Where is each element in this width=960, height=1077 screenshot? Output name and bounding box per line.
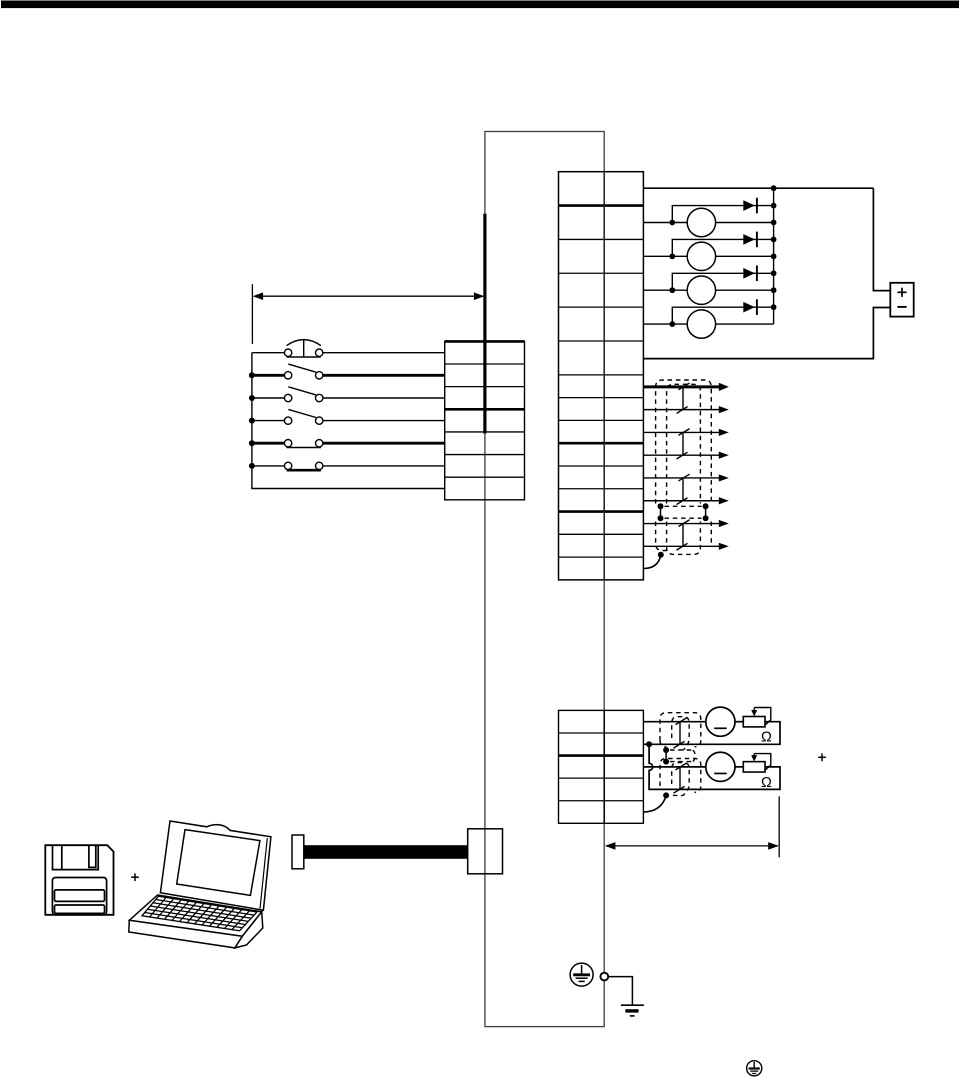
wire ground terminal to earth (608, 977, 632, 1005)
ohm label RP2 (761, 775, 772, 791)
communication connector CN4 on unit (468, 829, 503, 874)
encoder output signal wire 3 with arrow (643, 429, 728, 436)
junction node on relay RA4 wire (669, 321, 675, 327)
flywheel diode D2 (672, 232, 773, 257)
wire VDD to external supply (top) (643, 187, 873, 189)
relay coil RA4 (643, 310, 773, 338)
input switch SW5 (closed contact) (252, 440, 445, 448)
wire to supply positive (873, 188, 890, 290)
output common bus wire (773, 188, 775, 324)
junction node on relay RA1 wire (669, 220, 675, 226)
dimension arrow (analog cable length) (605, 842, 779, 850)
node on output bus at relay row 2 (771, 253, 777, 259)
twisted pair symbol 1 (677, 383, 690, 413)
flywheel diode D1 (672, 198, 773, 223)
meter M1 (ammeter) (706, 707, 735, 736)
meter M2 (ammeter) (706, 752, 735, 781)
input common bus wire (252, 353, 445, 489)
twisted pair symbol 4 (677, 520, 690, 550)
laptop computer (setup software) (129, 821, 271, 948)
flywheel diode D4 (672, 299, 773, 324)
protective earth symbol PE (bottom note) (747, 1061, 762, 1076)
junction node on input bus row 6 (249, 463, 255, 469)
emergency stop switch EMG (252, 339, 445, 357)
wire potentiometer RP2 return to LG (655, 767, 780, 790)
dimension arrow (cable length, upper left) (253, 292, 485, 300)
junction node on input bus row 2 (249, 372, 255, 378)
cable shield outlines (analog monitors, dashed) (660, 713, 701, 796)
bold segment on unit left edge (483, 214, 486, 434)
node on output bus at diode row 1 (771, 203, 777, 209)
ohm label RP1 (761, 730, 772, 746)
dimension extension line (left) (251, 284, 253, 344)
svg-text:Ω: Ω (761, 730, 772, 746)
ground terminal on unit (600, 973, 608, 981)
terminal block CN1B (input connector) (445, 341, 525, 499)
junction node on input bus row 4 (249, 418, 255, 424)
encoder output signal wire 5 with arrow (643, 474, 728, 481)
junction node on relay RA2 wire (669, 253, 675, 259)
node on output bus at relay row 1 (771, 220, 777, 226)
shield drain wire to SD terminal (643, 552, 663, 569)
input switch SW2 (open contact) (252, 364, 445, 379)
node LG common (646, 741, 652, 747)
flywheel diode D3 (672, 265, 773, 290)
relay coil RA1 (643, 208, 773, 236)
wire LG terminal to node (643, 743, 649, 745)
relay coil RA3 (643, 276, 773, 304)
page header bar (1, 1, 959, 9)
junction node on input bus row 3 (249, 395, 255, 401)
wire LG common link with crossover hop (649, 744, 655, 789)
setup software floppy disk (45, 845, 113, 915)
relay coil RA2 (643, 242, 773, 270)
twisted pair symbol analog 1 (674, 718, 687, 748)
shield junction between analog cables (663, 747, 695, 765)
node on output bus at diode row 4 (771, 304, 777, 310)
cable plug at computer end (292, 835, 304, 869)
wire COM to supply negative (643, 308, 890, 359)
cable shield outline (encoder outputs, dashed) (656, 380, 712, 554)
svg-text:Ω: Ω (761, 775, 772, 791)
servo amplifier unit outline (485, 132, 604, 1027)
shield drain wire to SD (analog) (643, 792, 669, 812)
encoder output signal wire 2 with arrow (643, 406, 728, 413)
node on output bus at diode row 2 (771, 237, 777, 243)
wire MO1 analog output (643, 721, 705, 723)
encoder output signal wire 7 with arrow (643, 520, 728, 527)
terminal block CN1 (upper connector) (559, 172, 644, 580)
node on output bus at diode row 3 (771, 270, 777, 276)
potentiometer RP2 (743, 754, 771, 772)
wire MO2 analog output (643, 766, 705, 768)
plus annotation (analog section) (818, 753, 826, 761)
dimension extension line (right) (778, 796, 780, 857)
potentiometer RP1 (743, 708, 771, 727)
input switch SW6 (closed contact) (252, 462, 445, 470)
input switch SW3 (open contact) (252, 387, 445, 402)
shield junction between cables (658, 503, 709, 521)
terminal block CN3 (monitor connector) (559, 710, 644, 823)
junction node on relay RA3 wire (669, 287, 675, 293)
external power supply 24VDC (+/-) (890, 283, 913, 317)
plus sign (floppy + computer) (131, 873, 139, 881)
earth ground symbol (621, 1005, 644, 1016)
encoder output signal wire 8 with arrow (643, 543, 728, 550)
communication cable (thick) (304, 845, 468, 859)
input switch SW4 (open contact) (252, 409, 445, 424)
wire potentiometer RP1 return to LG (649, 722, 780, 745)
junction node on input bus row 5 (249, 440, 255, 446)
encoder output signal wire 4 with arrow (643, 452, 728, 459)
wire meter M2 to potentiometer (735, 766, 743, 768)
twisted pair symbol analog 2 (674, 763, 687, 793)
protective earth symbol PE (on unit) (570, 963, 593, 986)
node on output bus at relay row 3 (771, 287, 777, 293)
twisted pair symbol 3 (677, 474, 690, 504)
encoder output signal wire 1 with arrow (643, 383, 728, 391)
node at output bus top (771, 185, 777, 191)
twisted pair symbol 2 (677, 429, 690, 459)
wire meter M1 to potentiometer (735, 721, 743, 723)
encoder output signal wire 6 with arrow (643, 497, 728, 504)
